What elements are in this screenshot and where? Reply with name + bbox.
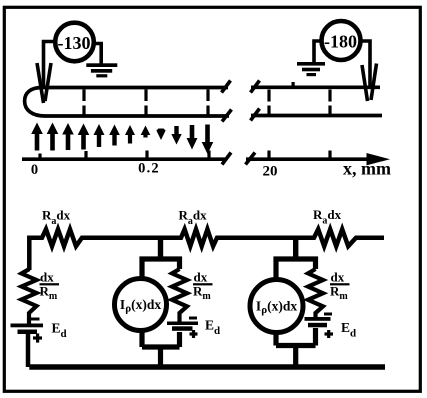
svg-text:dx: dx: [194, 270, 208, 285]
svg-text:0.2: 0.2: [138, 161, 160, 177]
svg-text:20: 20: [263, 164, 278, 180]
svg-text:-180: -180: [324, 32, 357, 52]
svg-text:0: 0: [31, 162, 38, 178]
svg-text:dx: dx: [40, 270, 54, 285]
svg-text:-130: -130: [58, 33, 91, 53]
svg-text:dx: dx: [331, 270, 345, 285]
svg-text:x, mm: x, mm: [343, 159, 391, 179]
